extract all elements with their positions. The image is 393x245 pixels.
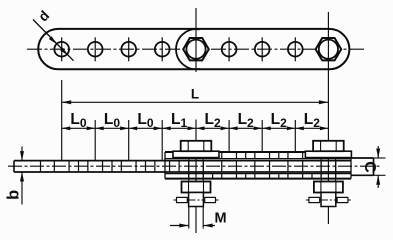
svg-text:C: C <box>361 161 378 173</box>
svg-text:L: L <box>191 87 199 102</box>
svg-text:M: M <box>214 211 226 227</box>
svg-text:b: b <box>5 190 23 200</box>
